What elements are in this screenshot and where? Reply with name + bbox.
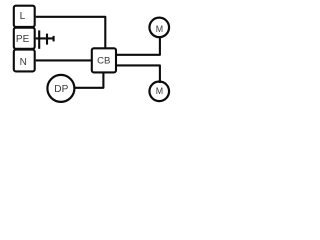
svg-text:CB: CB bbox=[97, 56, 110, 67]
earth bar long bbox=[38, 30, 40, 48]
wire CB right upper to motor M1 bbox=[116, 36, 160, 55]
terminal N bbox=[14, 50, 35, 72]
wire CB right lower to motor M2 bbox=[116, 65, 160, 83]
svg-text:M: M bbox=[156, 86, 163, 96]
wire L to CB top bbox=[36, 17, 106, 48]
earth symbol stem bbox=[36, 37, 55, 39]
earth bar medium bbox=[46, 34, 48, 45]
svg-text:L: L bbox=[20, 11, 26, 22]
terminal L bbox=[14, 6, 35, 27]
breaker CB bbox=[92, 48, 116, 72]
svg-text:PE: PE bbox=[16, 34, 30, 45]
terminal PE bbox=[14, 28, 35, 49]
motor M2 bbox=[149, 82, 169, 102]
earth bar short bbox=[53, 36, 55, 42]
svg-text:DP: DP bbox=[54, 84, 68, 95]
wire N to CB left bbox=[36, 59, 92, 61]
svg-text:N: N bbox=[20, 57, 27, 68]
svg-text:M: M bbox=[156, 24, 163, 34]
wire CB bottom to DP bbox=[75, 72, 104, 87]
device DP bbox=[47, 75, 74, 102]
motor M1 bbox=[149, 18, 169, 38]
